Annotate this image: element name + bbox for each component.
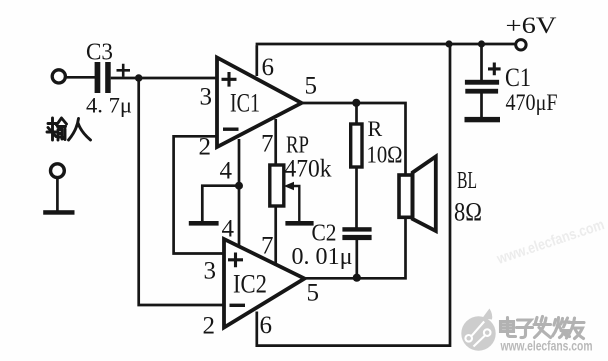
- svg-text:470k: 470k: [285, 156, 332, 183]
- svg-text:7: 7: [261, 131, 274, 158]
- svg-text:www.elecfans.com: www.elecfans.com: [500, 339, 593, 354]
- wire IC1 pin2 feedback loop to IC2 pin3: [174, 136, 225, 253]
- IC2 noninverting + symbol: [228, 253, 243, 268]
- IC1 noninverting + symbol: [222, 72, 237, 87]
- RP wiper arm: [292, 186, 299, 221]
- capacitor C3: [95, 62, 111, 93]
- wire pin4 ground tap: [202, 186, 239, 222]
- node rail junction C1: [478, 40, 485, 47]
- ground (input): [43, 210, 74, 215]
- op-amp IC2: [224, 239, 305, 328]
- svg-text:470μF: 470μF: [506, 90, 558, 115]
- svg-text:6: 6: [262, 54, 275, 81]
- svg-text:IC2: IC2: [233, 270, 267, 299]
- node pin4 junction: [235, 182, 243, 190]
- svg-text:3: 3: [200, 84, 213, 111]
- watermark 电子发烧友: [501, 317, 585, 339]
- wire IC1 output pin5 to speaker top: [301, 103, 406, 176]
- +6V supply terminal: [516, 40, 526, 50]
- node C2 output junction: [353, 274, 361, 282]
- node input junction: [135, 74, 143, 82]
- input terminal J2 (ground side): [51, 164, 65, 178]
- svg-text:0. 01μ: 0. 01μ: [292, 244, 353, 270]
- svg-text:IC1: IC1: [230, 89, 260, 118]
- wire IC1 pin6 up to +V rail: [255, 45, 258, 76]
- svg-text:R: R: [368, 116, 383, 141]
- IC2 inverting - symbol: [230, 304, 246, 307]
- RP wiper arrowhead: [284, 182, 294, 191]
- capacitor C2 plates: [342, 227, 371, 240]
- wire C2 bottom to IC2 output line: [355, 240, 358, 279]
- op-amp IC1: [217, 58, 302, 148]
- polarity + of C1: [488, 63, 501, 76]
- label 输入 (input): [47, 118, 91, 140]
- svg-text:5: 5: [307, 280, 320, 307]
- wire pin4 IC1 to pin4 IC2: [238, 139, 241, 248]
- wire J2 down: [56, 178, 59, 211]
- svg-text:BL: BL: [457, 168, 477, 194]
- svg-text:5: 5: [305, 73, 318, 100]
- resistor R body: [351, 124, 362, 167]
- potentiometer RP body: [270, 165, 284, 206]
- capacitor C1 leads: [480, 44, 483, 118]
- wire J1 to C3: [66, 76, 95, 79]
- svg-text:6: 6: [260, 312, 273, 339]
- svg-text:3: 3: [204, 258, 217, 285]
- ground (C1): [465, 117, 501, 122]
- wire C3 to IC1 pin3: [111, 77, 217, 80]
- svg-text:2: 2: [203, 313, 216, 340]
- ground (RP wiper): [285, 221, 313, 226]
- resistor R lead: [355, 103, 358, 228]
- ground (pin4): [189, 221, 219, 226]
- input terminal J1 (signal): [52, 70, 65, 83]
- svg-text:+6V: +6V: [506, 13, 557, 38]
- svg-text:C3: C3: [86, 40, 113, 66]
- potentiometer RP lead (pin7 IC1 to pin7 IC2): [274, 119, 277, 266]
- svg-text:4: 4: [220, 158, 233, 185]
- watermark logo circle: [461, 309, 495, 351]
- node rail junction right branch: [445, 40, 452, 47]
- svg-text:8Ω: 8Ω: [454, 198, 482, 227]
- svg-text:C1: C1: [505, 63, 531, 92]
- svg-text:7: 7: [261, 233, 274, 260]
- svg-text:4. 7μ: 4. 7μ: [86, 93, 132, 118]
- wire +V rail: [256, 43, 515, 46]
- wire right side rail: IC2 pin6 to bottom rail to +V rail: [257, 44, 450, 346]
- IC1 inverting - symbol: [223, 127, 239, 130]
- wire IC2 output pin5 to speaker bottom: [304, 216, 406, 278]
- capacitor C1 plates: [465, 80, 499, 94]
- polarity + of C3: [117, 64, 131, 77]
- wire feedback input node down to IC2 pin2: [139, 78, 224, 305]
- node output R junction: [352, 99, 360, 107]
- svg-text:C2: C2: [312, 221, 337, 247]
- speaker BL body: [399, 175, 412, 217]
- speaker BL cone: [413, 157, 436, 232]
- svg-text:10Ω: 10Ω: [367, 143, 403, 169]
